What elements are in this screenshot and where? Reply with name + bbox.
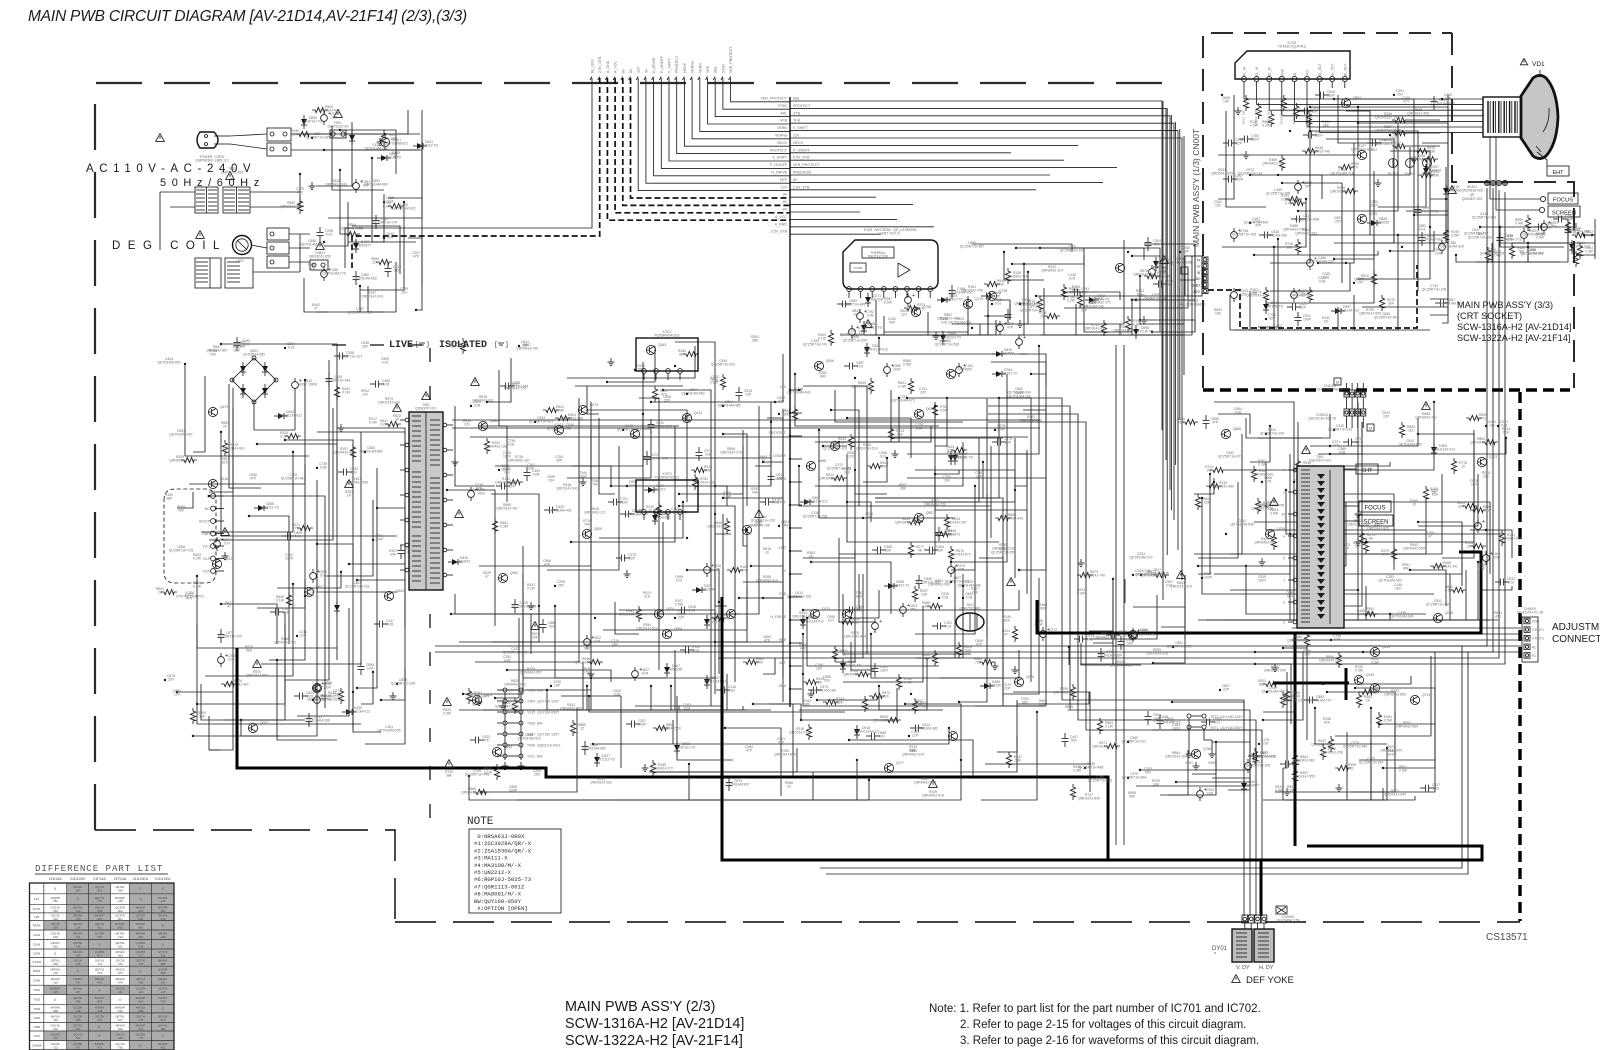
node (634, 369, 636, 371)
svg-text:0.3W: 0.3W (443, 712, 452, 716)
node (991, 303, 993, 305)
svg-text:0.2W: 0.2W (1262, 124, 1271, 128)
svg-text:QETN1HM-161: QETN1HM-161 (1152, 719, 1175, 723)
svg-text:Q821: Q821 (316, 585, 324, 589)
wire (1355, 688, 1435, 752)
svg-text:QRD014J-567: QRD014J-567 (1133, 273, 1155, 277)
wire (1152, 316, 1195, 332)
wire (197, 576, 337, 648)
warning mark (445, 760, 454, 768)
svg-text:3. Refer to page 2-16 for wave: 3. Refer to page 2-16 for waveforms of t… (960, 1035, 1259, 1047)
node (1485, 529, 1487, 531)
svg-text:0.3W: 0.3W (1585, 250, 1594, 254)
svg-text:51K: 51K (1367, 611, 1374, 615)
resistor R862 (1292, 752, 1297, 768)
svg-text:2K: 2K (809, 555, 814, 559)
wire bus row GND (790, 211, 860, 213)
wire (935, 406, 1027, 510)
ground (504, 762, 506, 766)
svg-text:Q866: Q866 (1233, 427, 1241, 431)
wire (715, 402, 771, 486)
svg-text:0.5W: 0.5W (884, 301, 893, 305)
svg-text:NC: NC (205, 507, 211, 511)
svg-text:L05: L05 (34, 915, 39, 919)
capacitor C797 (1343, 441, 1348, 443)
svg-text:0.1W: 0.1W (342, 391, 351, 395)
svg-text:-943: -943 (138, 917, 144, 921)
transistor Q636 (630, 429, 639, 438)
svg-text:Q745: Q745 (1369, 212, 1377, 216)
svg-text:22P: 22P (1383, 415, 1390, 419)
svg-text:QRN043J-372: QRN043J-372 (651, 767, 673, 771)
svg-text:0: 0 (99, 943, 101, 947)
svg-text:F01: F01 (34, 897, 40, 901)
wire (677, 696, 733, 760)
node (1401, 246, 1403, 248)
wire to adjustment connector (1292, 645, 1521, 647)
svg-text:16V: 16V (1215, 204, 1222, 208)
svg-text:0.5W: 0.5W (675, 603, 684, 607)
svg-text:-134: -134 (138, 962, 144, 966)
ground (590, 670, 592, 674)
svg-text:QRN043J-957: QRN043J-957 (520, 671, 542, 675)
svg-text:Q176: Q176 (975, 297, 983, 301)
capacitor C632 (1248, 755, 1253, 757)
svg-text:100P: 100P (375, 538, 384, 542)
wire (997, 736, 1017, 752)
svg-text:Y002: Y002 (33, 998, 40, 1002)
resistor R243 (848, 434, 853, 450)
svg-text:54K: 54K (1137, 293, 1144, 297)
wire (1358, 227, 1430, 279)
svg-text:0.05: 0.05 (383, 383, 390, 387)
svg-text:0.5W: 0.5W (1384, 719, 1393, 723)
svg-text:MA2608: MA2608 (702, 588, 715, 592)
ground (1413, 155, 1415, 159)
wire (884, 296, 968, 332)
svg-text:0.4W: 0.4W (369, 421, 378, 425)
node (383, 237, 385, 239)
wire (847, 418, 911, 458)
transistor Q866 (1221, 429, 1230, 438)
resistor R204 (484, 438, 489, 454)
svg-text:QDSH1134-012: QDSH1134-012 (1431, 448, 1455, 452)
svg-text:2K: 2K (1366, 699, 1371, 703)
wire (875, 438, 1015, 502)
capacitor C838 (1259, 234, 1264, 236)
svg-text:QRD014J-825: QRD014J-825 (1367, 527, 1389, 531)
wire (985, 736, 1090, 764)
resistor R370 (1379, 295, 1384, 311)
capacitor C636 (1499, 232, 1501, 237)
wire fan STB1 (723, 78, 790, 109)
wire (201, 684, 305, 720)
wire (365, 668, 405, 744)
svg-text:0.05: 0.05 (228, 658, 235, 662)
svg-text:P_ONOFF: P_ONOFF (770, 163, 788, 167)
svg-text:PROTECT: PROTECT (675, 55, 679, 73)
thick wire yoke V (1294, 634, 1297, 846)
transistor Q566 (726, 609, 735, 618)
wire (357, 568, 405, 580)
svg-text:-200: -200 (97, 889, 103, 893)
svg-text:VCR: VCR (778, 546, 786, 550)
ground (626, 570, 628, 574)
svg-text:50V: 50V (1301, 293, 1308, 297)
wire (317, 432, 405, 628)
svg-text:22: 22 (1467, 545, 1471, 549)
ground (530, 602, 532, 606)
node (1135, 299, 1137, 301)
jumper YET1 (1187, 725, 1191, 729)
svg-text:QETN1HM-897: QETN1HM-897 (1520, 252, 1543, 256)
diode D258 (258, 505, 264, 511)
svg-text:0.4W: 0.4W (898, 385, 907, 389)
capacitor C899 (310, 573, 317, 580)
resistor R293 (181, 457, 197, 462)
live-isolated dashed separator horiz (332, 344, 428, 346)
wire (1363, 652, 1435, 700)
svg-text:QJL391-06A6D1: QJL391-06A6D1 (1180, 303, 1205, 307)
svg-text:0.4W: 0.4W (383, 205, 392, 209)
wire (1354, 590, 1358, 620)
svg-text:5V: 5V (782, 569, 787, 573)
node (1345, 262, 1347, 264)
diode D423 (1241, 783, 1247, 789)
node (284, 347, 286, 349)
wire (991, 346, 1039, 454)
svg-text:680: 680 (679, 353, 685, 357)
svg-text:QCZ5R71H-940: QCZ5R71H-940 (1343, 745, 1368, 749)
svg-text:QCZ5R71H-332: QCZ5R71H-332 (1468, 236, 1493, 240)
wire (1266, 462, 1426, 530)
wire (1406, 195, 1448, 211)
wire (495, 438, 643, 466)
svg-text:0.07: 0.07 (1356, 441, 1363, 445)
long horizontal wire (452, 419, 1040, 421)
svg-text:160V: 160V (1315, 134, 1324, 138)
wire (1198, 482, 1238, 558)
resistor R666 (1323, 566, 1328, 582)
capacitor C901 (1120, 636, 1122, 641)
resistor R813 (831, 475, 847, 480)
svg-text:Q658: Q658 (1140, 628, 1148, 632)
wire (317, 560, 397, 592)
wire (1228, 742, 1250, 790)
svg-text:QRD014J-341: QRD014J-341 (556, 487, 578, 491)
resistor R295 (1342, 188, 1358, 193)
svg-text:8V: 8V (793, 178, 798, 182)
svg-text:0.4W: 0.4W (904, 681, 913, 685)
wire (1250, 291, 1326, 330)
capacitor C169 (1483, 555, 1490, 562)
transistor Q888 (806, 461, 815, 470)
svg-text:8V: 8V (783, 200, 788, 204)
warning mark (1160, 256, 1169, 264)
transistor Q235 (1354, 675, 1363, 684)
wire (1040, 248, 1144, 260)
wire (681, 760, 961, 800)
resistor R369 (1279, 155, 1284, 171)
svg-text:-440: -440 (75, 954, 81, 958)
svg-text:QETN1HM-716: QETN1HM-716 (1330, 172, 1353, 176)
svg-text:2: 2 (1283, 491, 1285, 495)
svg-text:QMZ2D11-650: QMZ2D11-650 (309, 255, 331, 259)
svg-text:50V: 50V (1071, 739, 1078, 743)
ground (1019, 320, 1021, 324)
transistor Q223 (1477, 457, 1486, 466)
svg-text:-356: -356 (117, 889, 123, 893)
wire bus row V_SHIFT (790, 131, 1178, 550)
svg-text:FOCUS: FOCUS (1365, 506, 1386, 512)
svg-text:10: 10 (842, 653, 846, 657)
resistor R120 (1044, 313, 1060, 318)
transistor Q268 (1433, 613, 1442, 622)
CRT socket assembly dashed border left (1203, 33, 1452, 388)
svg-text:22P: 22P (629, 557, 636, 561)
wire (352, 226, 400, 274)
wire (1198, 502, 1346, 566)
main board dashed border (95, 83, 1184, 830)
wire bus row H_VCC (790, 204, 913, 206)
wire (587, 686, 719, 710)
capacitor C208 (334, 355, 339, 357)
svg-text:VERT OUT IC: VERT OUT IC (879, 232, 901, 236)
wire (964, 332, 968, 335)
resistor R278 (460, 338, 465, 354)
wire (555, 606, 715, 678)
capacitor C327 (1420, 787, 1425, 789)
wire (1379, 716, 1435, 724)
wire (257, 580, 305, 608)
diode D997 (1335, 308, 1341, 314)
svg-text:33P: 33P (528, 467, 535, 471)
capacitor C897 (844, 365, 849, 367)
transistor Q279 (578, 405, 587, 414)
warning mark (1177, 571, 1186, 579)
wire (651, 686, 667, 710)
wire (643, 362, 771, 458)
svg-text:SCW-1322A-H2 [AV-21F14]: SCW-1322A-H2 [AV-21F14] (1457, 333, 1571, 343)
wire (1362, 498, 1426, 554)
svg-text:QETN1HM-652: QETN1HM-652 (681, 392, 704, 396)
svg-text:0.09: 0.09 (307, 695, 314, 699)
svg-text:TRAP: TRAP (33, 924, 41, 928)
svg-text:C066: C066 (33, 979, 41, 983)
svg-text:0: 0 (140, 1044, 142, 1048)
diode D764 (996, 371, 1002, 377)
svg-text:0.08: 0.08 (966, 596, 973, 600)
wire (1270, 263, 1350, 291)
warning mark (471, 378, 480, 386)
svg-text:QRN043J-744: QRN043J-744 (516, 347, 538, 351)
capacitor C203 (1106, 634, 1111, 636)
svg-text:QCZ5R71H-395: QCZ5R71H-395 (1266, 192, 1291, 196)
svg-text:QDSH1134-012: QDSH1134-012 (346, 710, 370, 714)
svg-text:-416: -416 (160, 917, 166, 921)
wire (999, 398, 1031, 682)
svg-text:QRN043J-973: QRN043J-973 (914, 781, 936, 785)
svg-text:100: 100 (390, 137, 396, 141)
svg-text:0.08: 0.08 (705, 453, 712, 457)
svg-text:Q924: Q924 (666, 607, 674, 611)
resistor R805 (1331, 482, 1336, 498)
resistor R936 (587, 659, 603, 664)
svg-text:0.2W: 0.2W (280, 435, 289, 439)
svg-text:25K: 25K (1373, 691, 1380, 695)
svg-text:25V: 25V (401, 291, 408, 295)
svg-text:QCZ5R71H-132: QCZ5R71H-132 (1328, 428, 1353, 432)
svg-text:D701: D701 (33, 907, 41, 911)
svg-text:YS11 BW: YS11 BW (527, 755, 543, 759)
svg-text:16V: 16V (944, 479, 951, 483)
svg-text:QETN1HM-186: QETN1HM-186 (812, 689, 835, 693)
resistor R401 (555, 415, 571, 420)
svg-text:47P: 47P (746, 749, 753, 753)
wire (1198, 570, 1294, 620)
svg-text:33P: 33P (958, 568, 965, 572)
wire (348, 194, 384, 242)
resistor R148 (935, 531, 951, 536)
wire (277, 660, 337, 740)
svg-text:25V: 25V (1335, 220, 1342, 224)
wire (507, 670, 611, 682)
svg-text:-997: -997 (97, 935, 103, 939)
svg-text:#5:UN2212-X: #5:UN2212-X (474, 869, 512, 876)
wire (1226, 111, 1266, 207)
svg-text:QETN1HM-837: QETN1HM-837 (726, 783, 749, 787)
transistor Q511 (212, 559, 221, 568)
svg-text:QGZ0WNC159: QGZ0WNC159 (1277, 919, 1300, 923)
wire (1084, 248, 1132, 332)
svg-text:#6:RGP10J-5025-T3: #6:RGP10J-5025-T3 (474, 876, 531, 883)
wire (587, 386, 599, 414)
wire (388, 178, 422, 198)
wire (852, 296, 988, 335)
svg-text:QRN043J-584: QRN043J-584 (1396, 725, 1418, 729)
resistor R189 (1362, 611, 1378, 616)
svg-text:0.06: 0.06 (1323, 276, 1330, 280)
svg-text:QRD014J-276: QRD014J-276 (720, 451, 742, 455)
wire (715, 514, 731, 534)
warning mark (443, 698, 452, 706)
svg-text:ABL: ABL (780, 111, 787, 115)
node (1265, 505, 1267, 507)
capacitor C647 (632, 671, 639, 678)
resistor R428 (867, 463, 883, 468)
resistor R808 (1195, 494, 1200, 510)
svg-text:-578: -578 (75, 962, 81, 966)
wire (1346, 383, 1348, 390)
node (802, 673, 804, 675)
wire (1234, 247, 1274, 330)
ground (1274, 664, 1276, 668)
wire (751, 410, 783, 566)
warning mark (156, 134, 165, 142)
svg-text:50K: 50K (292, 133, 299, 137)
svg-text:50V: 50V (1154, 243, 1161, 247)
warning mark (1270, 498, 1279, 506)
resistor R723 (855, 671, 871, 676)
diode D327 (696, 587, 702, 593)
capacitor C751 (308, 713, 310, 718)
wire (1160, 750, 1188, 795)
svg-text:0.04: 0.04 (642, 672, 649, 676)
wire (1314, 422, 1362, 606)
wire (1442, 95, 1448, 323)
svg-text:0.4W: 0.4W (193, 585, 202, 589)
wire (603, 530, 747, 630)
svg-text:-979: -979 (117, 981, 123, 985)
svg-text:QCZ5R71H-185: QCZ5R71H-185 (391, 682, 416, 686)
svg-text:33P: 33P (1081, 309, 1088, 313)
svg-text:-445: -445 (75, 1009, 81, 1013)
wire fan ABL (715, 78, 790, 117)
wire (1422, 143, 1448, 191)
svg-text:1K: 1K (347, 494, 352, 498)
thick wire yoke H (1260, 860, 1263, 916)
svg-text:0.08: 0.08 (533, 473, 540, 477)
resistor R223 (904, 305, 920, 310)
wire (875, 398, 999, 498)
wire (1144, 244, 1195, 316)
wire (1140, 320, 1195, 332)
svg-text:0.3W: 0.3W (1355, 669, 1364, 673)
wire (1263, 788, 1383, 800)
wire (481, 708, 577, 792)
capacitor C554 (1553, 218, 1558, 220)
capacitor C147 (374, 623, 379, 625)
svg-text:MAIN PWB ASS'Y (1/3) CN00T: MAIN PWB ASS'Y (1/3) CN00T (1191, 129, 1201, 247)
svg-text:QRN043J-706: QRN043J-706 (1262, 162, 1284, 166)
svg-text:QCZ5R71H-458: QCZ5R71H-458 (1295, 218, 1320, 222)
resistor R346 (1125, 316, 1130, 332)
svg-text:160V: 160V (1370, 204, 1379, 208)
resistor R626 (885, 717, 901, 722)
resistor R159 (650, 760, 655, 776)
svg-text:50V: 50V (1546, 226, 1553, 230)
wire (815, 470, 855, 486)
node (1266, 691, 1268, 693)
svg-text:*: * (1214, 952, 1216, 958)
svg-text:NECK: NECK (683, 62, 687, 73)
DEF YOKE label (1232, 975, 1241, 983)
svg-text:Q339: Q339 (1277, 527, 1285, 531)
svg-text:100P: 100P (638, 723, 647, 727)
svg-text:82K: 82K (234, 349, 241, 353)
boxed marker (1181, 267, 1188, 274)
wire (831, 442, 963, 486)
wire (1418, 474, 1478, 526)
svg-text:QRD014J-428: QRD014J-428 (1246, 294, 1268, 298)
CRT socket feed rows (1380, 98, 1483, 100)
svg-text:22P: 22P (1236, 142, 1243, 146)
resistor R197 (350, 444, 355, 460)
diode D648 (381, 155, 387, 161)
svg-text:22P: 22P (1082, 291, 1089, 295)
resistor R618 (1302, 148, 1318, 153)
wire (381, 440, 405, 700)
svg-text:(CRT SOCKET): (CRT SOCKET) (1457, 311, 1522, 321)
svg-text:R211 1K5: R211 1K5 (1242, 110, 1246, 124)
wire (575, 385, 683, 387)
svg-text:QRD014J-362: QRD014J-362 (590, 781, 612, 785)
wire (209, 408, 333, 540)
node (994, 429, 996, 431)
drive pots (1389, 159, 1398, 168)
svg-text:QRD014J-653: QRD014J-653 (1330, 190, 1352, 194)
svg-text:9K: 9K (1207, 469, 1212, 473)
